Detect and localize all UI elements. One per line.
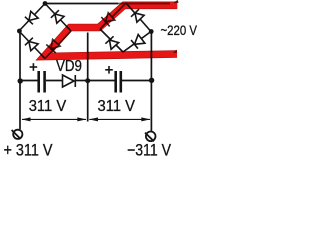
svg-text:VD9: VD9 — [56, 58, 82, 75]
wire edge LR — [45, 31, 71, 59]
wire edge UL — [19, 4, 45, 32]
wire mid rail to cap2 — [88, 80, 115, 82]
svg-text:~220 V: ~220 V — [161, 22, 198, 38]
node VD9 cathode — [85, 78, 90, 83]
plus sign C1 — [30, 63, 38, 71]
wire middle rail — [87, 33, 89, 122]
wire red path outline — [44, 5, 177, 56]
capacitor C1 — [39, 71, 45, 93]
svg-text:311 V: 311 V — [29, 98, 67, 115]
node top vertex bridge1 — [43, 1, 48, 6]
diode bridge 1 (left diamond) — [19, 4, 71, 59]
plus sign C2 — [105, 66, 113, 74]
wire cap2 to right rail — [122, 80, 151, 82]
wire right rail (- output) — [150, 31, 152, 132]
wire edge LL — [100, 29, 123, 52]
junction dots — [17, 1, 154, 84]
diode D4 lower-right — [51, 39, 60, 48]
wire edge UL — [100, 3, 126, 29]
diode D1 upper-left — [29, 11, 38, 20]
capacitor C2 — [116, 71, 121, 93]
node cap row right — [149, 78, 154, 83]
dimension arrow left 311V — [22, 117, 87, 121]
wire capacitor row left — [20, 80, 38, 82]
wire red path — [44, 5, 177, 56]
node right vertex bridge2 — [149, 29, 154, 34]
wire edge LL — [19, 31, 45, 59]
diode VD9 — [63, 75, 76, 87]
node cap row left — [18, 78, 23, 83]
diode D3 lower-left — [29, 42, 38, 51]
terminal -311V — [145, 132, 156, 142]
red trace end notch top — [174, 0, 179, 3]
wire top AC line — [45, 3, 118, 5]
svg-text:−311 V: −311 V — [127, 142, 171, 160]
diode D6 upper-right — [135, 13, 144, 22]
wire cap1 to VD9 — [46, 80, 63, 82]
dimension arrow right 311V — [89, 117, 150, 121]
diode D7 lower-left — [110, 40, 119, 49]
svg-text:+ 311 V: + 311 V — [4, 142, 53, 160]
diode D5 upper-left — [106, 13, 115, 22]
red trace end notch bottom — [174, 50, 178, 54]
wire left rail (+ output) — [19, 31, 21, 129]
terminal +311V — [12, 130, 23, 139]
wire edge LR — [123, 32, 151, 53]
diode D8 lower-right — [135, 35, 145, 45]
svg-text:311 V: 311 V — [98, 98, 136, 115]
wire edge UR — [126, 3, 151, 32]
diode D2 upper-right — [55, 14, 64, 23]
wire edge UR — [45, 4, 71, 32]
node left vertex bridge1 — [17, 29, 22, 34]
wire VD9 to mid rail — [75, 80, 88, 82]
diode bridge 2 (right diamond) — [100, 3, 151, 52]
red highlighted trace — [44, 5, 177, 56]
